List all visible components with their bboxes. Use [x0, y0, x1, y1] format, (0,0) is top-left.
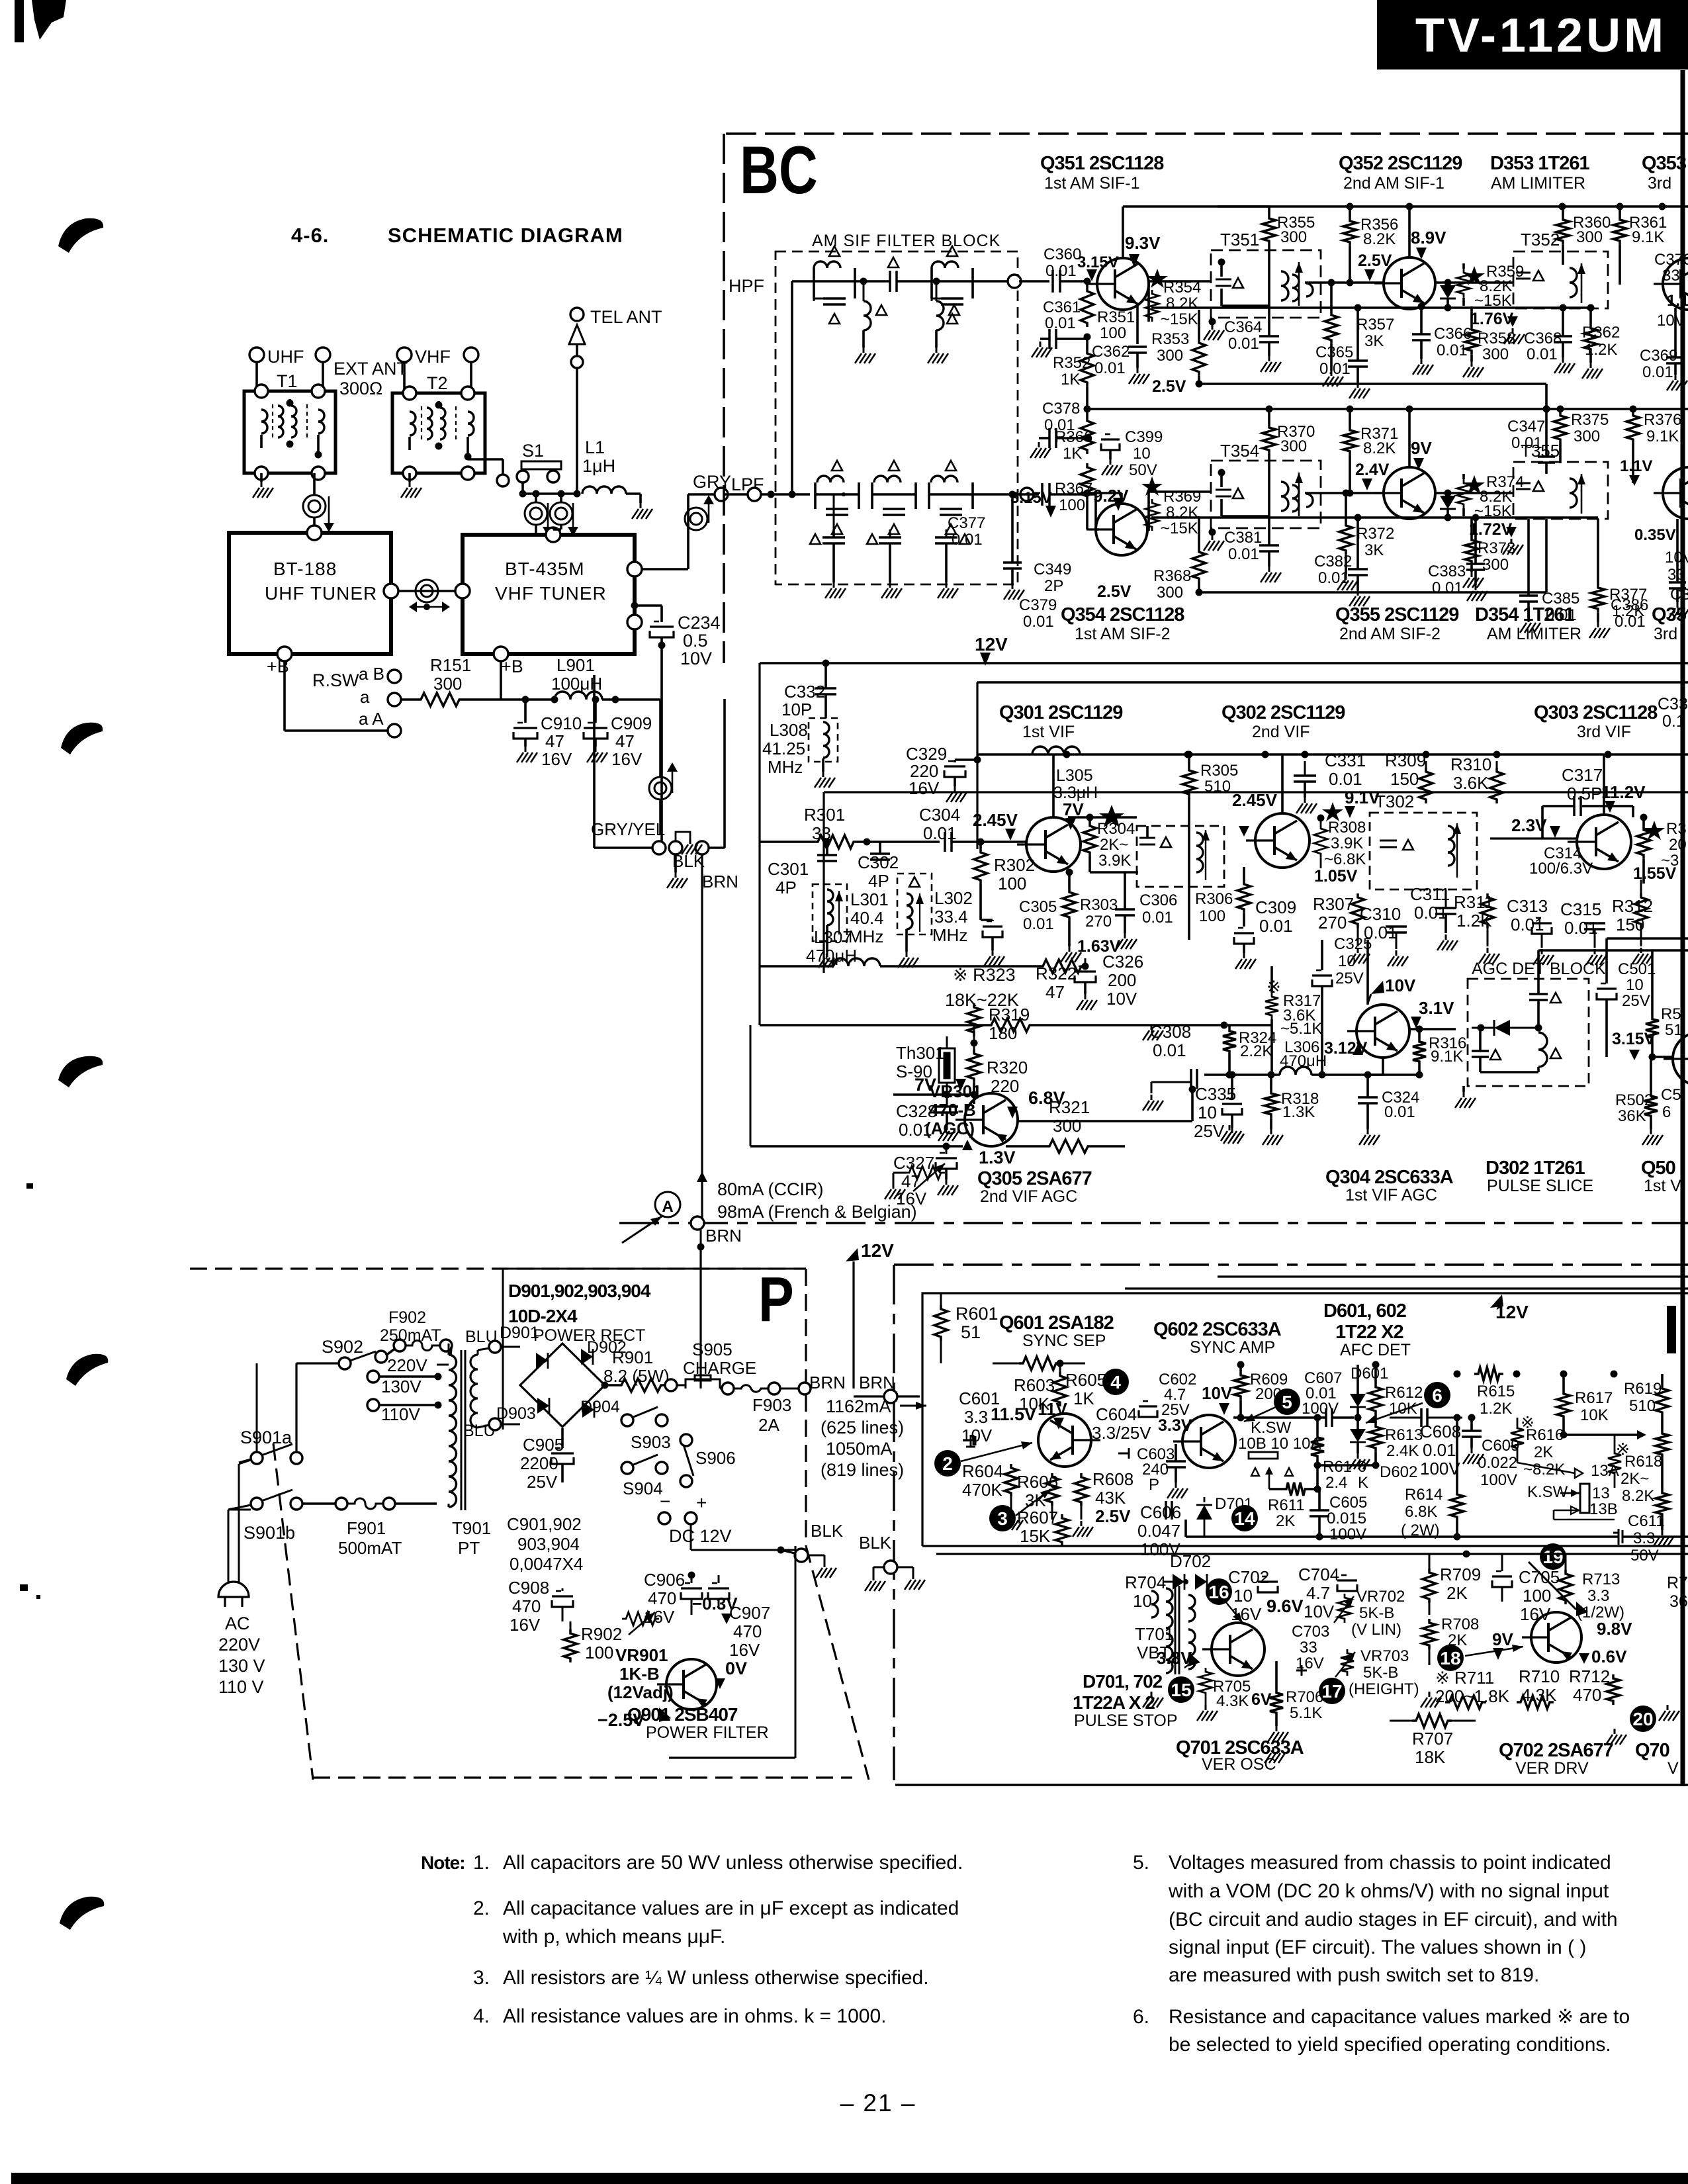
- wire T1 to feedthrough: [313, 473, 316, 494]
- HPF filter unit 2 (coil+cap): [932, 280, 973, 283]
- capacitor C910: [513, 727, 537, 729]
- coil T352: [1570, 268, 1577, 297]
- numbered point 5: [1274, 1388, 1300, 1415]
- svg-text:470K: 470K: [962, 1480, 1002, 1500]
- svg-text:C704: C704: [1298, 1565, 1339, 1584]
- transistor Q352: [1384, 257, 1435, 309]
- svg-text:SCHEMATIC DIAGRAM: SCHEMATIC DIAGRAM: [388, 224, 623, 247]
- svg-text:C361: C361: [1043, 298, 1081, 316]
- tap 130V: [367, 1371, 379, 1383]
- svg-text:R303: R303: [1080, 896, 1118, 914]
- svg-text:9.1K: 9.1K: [1632, 228, 1664, 246]
- transistor Q304 (1st VIF AGC): [1356, 1005, 1409, 1058]
- svg-text:2K: 2K: [1534, 1443, 1553, 1461]
- svg-text:R712: R712: [1569, 1666, 1610, 1686]
- svg-text:41.25: 41.25: [762, 739, 805, 758]
- svg-text:25V: 25V: [527, 1472, 558, 1492]
- svg-text:BLK: BLK: [811, 1521, 844, 1541]
- svg-text:0.01: 0.01: [1423, 1440, 1456, 1460]
- AGC det coil: [1538, 1032, 1547, 1067]
- svg-text:8.2K: 8.2K: [1166, 295, 1198, 312]
- svg-text:R305: R305: [1200, 762, 1238, 780]
- svg-text:C331: C331: [1325, 751, 1366, 770]
- svg-text:10P: 10P: [781, 700, 812, 719]
- wire to BC filter: [709, 846, 725, 849]
- wire LPF out: [973, 493, 1034, 496]
- dash-dot divider line upper: [619, 1222, 1688, 1224]
- svg-text:R352: R352: [1053, 354, 1090, 372]
- svg-text:C369: C369: [1640, 347, 1677, 365]
- sync lower bus: [1345, 1535, 1619, 1538]
- ground T351 cap: [1209, 318, 1216, 326]
- resistor R360: [1556, 216, 1570, 245]
- svg-text:0.01: 0.01: [1437, 341, 1468, 359]
- capacitor C399: [1101, 438, 1120, 440]
- svg-text:0.01: 0.01: [1414, 903, 1448, 923]
- svg-text:16V: 16V: [1231, 1604, 1262, 1624]
- diode D354 symbol: [1447, 493, 1449, 496]
- svg-text:Q353: Q353: [1642, 153, 1687, 174]
- svg-text:R321: R321: [1049, 1097, 1090, 1117]
- svg-text:D602: D602: [1380, 1463, 1417, 1481]
- dash-dot divider line lower: [894, 1263, 1688, 1265]
- svg-text:L1: L1: [585, 437, 605, 457]
- svg-text:C311: C311: [1410, 884, 1450, 904]
- svg-text:R5: R5: [1661, 1005, 1681, 1023]
- svg-text:C309: C309: [1255, 897, 1296, 917]
- svg-text:13: 13: [1592, 1484, 1610, 1502]
- numbered point 15: [1168, 1676, 1194, 1703]
- svg-text:C332: C332: [784, 682, 825, 702]
- svg-text:300: 300: [1574, 428, 1600, 445]
- svg-text:C908: C908: [508, 1578, 549, 1598]
- svg-text:0: 0: [1358, 1458, 1366, 1476]
- svg-text:10V: 10V: [961, 1426, 993, 1445]
- svg-text:0.01: 0.01: [1228, 545, 1259, 563]
- svg-text:0.01: 0.01: [1142, 909, 1173, 927]
- svg-text:R353: R353: [1151, 330, 1189, 348]
- svg-text:(819 lines): (819 lines): [821, 1460, 904, 1480]
- svg-text:C383: C383: [1428, 563, 1466, 580]
- svg-text:100V: 100V: [1420, 1459, 1460, 1479]
- transformer T901 primary: [449, 1355, 457, 1507]
- svg-text:C501: C501: [1618, 960, 1656, 978]
- svg-text:13A: 13A: [1591, 1462, 1619, 1480]
- svg-text:1.1V: 1.1V: [1620, 457, 1652, 475]
- svg-text:T351: T351: [1220, 230, 1259, 250]
- svg-text:C347: C347: [1507, 418, 1545, 435]
- svg-text:R618: R618: [1624, 1453, 1662, 1471]
- svg-text:R377: R377: [1609, 586, 1647, 604]
- svg-text:※ R323: ※ R323: [953, 965, 1016, 985]
- svg-text:10V: 10V: [1106, 989, 1137, 1009]
- svg-text:BRN: BRN: [705, 1226, 742, 1246]
- numbered point 19: [1540, 1543, 1566, 1570]
- svg-text:25V: 25V: [1335, 970, 1364, 987]
- svg-text:0.1: 0.1: [1662, 712, 1685, 731]
- voltage 2.45V Q302 star: [1322, 802, 1343, 821]
- svg-text:K.SW: K.SW: [1527, 1483, 1568, 1501]
- svg-text:0.01: 0.01: [1546, 606, 1577, 624]
- svg-text:0.01: 0.01: [1023, 613, 1054, 631]
- svg-text:T302: T302: [1375, 792, 1414, 811]
- svg-text:D353 1T261: D353 1T261: [1490, 153, 1589, 174]
- LPF filter unit 3: [929, 493, 973, 496]
- svg-text:D601: D601: [1351, 1365, 1388, 1383]
- svg-text:470: 470: [648, 1588, 676, 1608]
- svg-text:Q70: Q70: [1635, 1740, 1669, 1761]
- feedthrough capacitor VHF tuner input: [550, 502, 572, 525]
- svg-text:3: 3: [997, 1508, 1008, 1529]
- numbered point 16: [1206, 1578, 1232, 1605]
- svg-text:S901b: S901b: [244, 1523, 295, 1543]
- svg-text:8.2K: 8.2K: [1363, 439, 1396, 457]
- AM SIF filter block dashed box: [776, 251, 1018, 584]
- svg-text:Q601 2SA182: Q601 2SA182: [999, 1312, 1114, 1334]
- svg-text:3.6K: 3.6K: [1453, 773, 1489, 793]
- wire T1 right input: [322, 362, 324, 391]
- power rect solid box: [503, 1269, 806, 1430]
- svg-text:0.047: 0.047: [1137, 1521, 1180, 1541]
- svg-text:C335: C335: [1195, 1084, 1236, 1104]
- svg-text:L308: L308: [770, 720, 808, 740]
- wire VHF tuner right to C234: [635, 604, 662, 607]
- svg-text:110V: 110V: [381, 1404, 420, 1424]
- svg-text:R306: R306: [1195, 890, 1233, 908]
- svg-text:C377: C377: [948, 514, 985, 532]
- svg-text:0.01: 0.01: [1094, 359, 1126, 377]
- svg-text:2.3V: 2.3V: [1511, 815, 1547, 835]
- svg-text:S902: S902: [322, 1337, 363, 1357]
- svg-text:8.2K: 8.2K: [1166, 504, 1198, 522]
- svg-text:300Ω: 300Ω: [339, 379, 382, 398]
- svg-text:16V: 16V: [729, 1640, 760, 1660]
- svg-text:C304: C304: [919, 805, 960, 825]
- wire T2 output to S1: [468, 458, 503, 461]
- sync block outer box: [922, 1293, 1688, 1546]
- svg-text:C301: C301: [768, 859, 809, 879]
- svg-text:6: 6: [1662, 1103, 1671, 1121]
- svg-text:T354: T354: [1220, 441, 1259, 461]
- svg-text:T1: T1: [277, 371, 298, 391]
- svg-text:R607: R607: [1017, 1508, 1058, 1527]
- svg-text:10: 10: [1133, 1591, 1152, 1611]
- AC plug: [218, 1582, 249, 1597]
- svg-text:R605: R605: [1065, 1370, 1106, 1390]
- svg-text:0.01: 0.01: [952, 531, 983, 549]
- svg-text:A: A: [662, 1198, 673, 1216]
- svg-text:AM LIMITER: AM LIMITER: [1491, 174, 1585, 193]
- svg-text:10: 10: [1338, 952, 1356, 970]
- svg-text:3K: 3K: [1364, 332, 1384, 350]
- svg-text:2K~: 2K~: [1621, 1470, 1649, 1488]
- svg-text:R373: R373: [1478, 539, 1515, 557]
- svg-text:T2: T2: [427, 373, 448, 393]
- svg-text:0.01: 0.01: [1259, 916, 1293, 936]
- resistor R371: [1343, 426, 1356, 455]
- svg-text:R614: R614: [1405, 1486, 1443, 1504]
- svg-text:0.01: 0.01: [1319, 360, 1351, 378]
- svg-text:MHz: MHz: [848, 927, 883, 946]
- svg-text:110 V: 110 V: [218, 1677, 264, 1697]
- svg-text:C325: C325: [1334, 935, 1372, 953]
- svg-text:UHF: UHF: [267, 347, 304, 367]
- svg-text:R617: R617: [1575, 1389, 1613, 1407]
- svg-text:R351: R351: [1097, 308, 1135, 326]
- svg-text:250mAT: 250mAT: [380, 1326, 441, 1345]
- svg-text:S1: S1: [522, 441, 544, 461]
- svg-text:signal input (EF circuit). The: signal input (EF circuit). The values sh…: [1169, 1936, 1586, 1958]
- svg-text:33: 33: [1300, 1639, 1317, 1657]
- connector GRY/YEL: [652, 841, 666, 854]
- svg-text:0.35V: 0.35V: [1634, 526, 1676, 544]
- svg-text:VR901: VR901: [615, 1645, 668, 1665]
- svg-text:R708: R708: [1441, 1615, 1479, 1633]
- 12V bus line VIF: [977, 753, 1688, 756]
- svg-text:8.2K: 8.2K: [1622, 1487, 1654, 1505]
- svg-text:be selected to yield specified: be selected to yield specified operating…: [1169, 2034, 1611, 2056]
- BC block left dashed border: [723, 134, 725, 663]
- numbered point 20: [1630, 1706, 1656, 1732]
- svg-text:9.1K: 9.1K: [1646, 428, 1679, 445]
- svg-text:S905: S905: [692, 1340, 733, 1359]
- wire BRN bus to sync: [699, 1381, 701, 1388]
- svg-text:R319: R319: [989, 1005, 1030, 1024]
- numbered point 17: [1319, 1678, 1345, 1704]
- svg-text:VER OSC: VER OSC: [1202, 1755, 1276, 1774]
- svg-text:3.: 3.: [473, 1967, 490, 1989]
- transistor Q602: [1182, 1415, 1235, 1468]
- LPF filter unit 1: [815, 493, 859, 496]
- svg-text:2nd VIF: 2nd VIF: [1252, 723, 1310, 741]
- svg-text:AC: AC: [225, 1614, 250, 1633]
- coil T351: [1281, 271, 1288, 300]
- svg-text:BRN: BRN: [702, 872, 738, 891]
- svg-text:S906: S906: [695, 1448, 736, 1468]
- wire bus down to GRY/YEL: [593, 675, 596, 776]
- svg-text:1.55V: 1.55V: [1633, 864, 1677, 883]
- svg-text:6.8K: 6.8K: [1405, 1503, 1437, 1521]
- svg-text:R709: R709: [1440, 1565, 1481, 1584]
- svg-text:C381: C381: [1224, 529, 1262, 547]
- terminal VHF: [397, 347, 412, 362]
- svg-text:R612: R612: [1385, 1384, 1423, 1402]
- terminal BT-188 top: [307, 525, 322, 540]
- HPF filter unit 1 (coil+cap): [814, 280, 855, 283]
- svg-text:180: 180: [989, 1023, 1017, 1043]
- svg-text:VR703: VR703: [1360, 1647, 1409, 1665]
- svg-text:BLK: BLK: [672, 851, 705, 871]
- svg-text:1.2K: 1.2K: [1480, 1400, 1512, 1418]
- svg-text:R302: R302: [994, 855, 1035, 875]
- svg-text:9.3V: 9.3V: [1125, 233, 1161, 253]
- numbered point 14: [1231, 1505, 1258, 1531]
- svg-text:PT: PT: [458, 1538, 480, 1558]
- svg-text:R301: R301: [804, 805, 845, 825]
- svg-text:BT-188: BT-188: [273, 559, 337, 579]
- svg-text:are measured with push switch: are measured with push switch set to 819…: [1169, 1964, 1539, 1986]
- svg-text:C305: C305: [1019, 898, 1057, 916]
- svg-text:VR301: VR301: [929, 1081, 982, 1101]
- svg-text:C326: C326: [1102, 952, 1143, 972]
- UHF tuner block BT-188: [229, 533, 391, 654]
- svg-text:R368: R368: [1153, 567, 1191, 585]
- svg-text:AM LIMITER: AM LIMITER: [1487, 625, 1581, 643]
- node A circled: [655, 1192, 680, 1217]
- svg-text:S901a: S901a: [240, 1428, 292, 1447]
- trap box T301 dashed: [1137, 826, 1224, 887]
- svg-text:9V: 9V: [1411, 438, 1432, 458]
- svg-text:C611: C611: [1628, 1512, 1665, 1530]
- feedthrough capacitor GRY line: [685, 508, 707, 530]
- model number box: [1377, 0, 1688, 69]
- svg-text:2nd AM SIF-1: 2nd AM SIF-1: [1343, 174, 1444, 193]
- svg-text:12V: 12V: [861, 1240, 894, 1261]
- wire GRY/YEL left link: [593, 776, 596, 848]
- svg-text:MHz: MHz: [932, 925, 967, 945]
- svg-text:R357: R357: [1356, 316, 1394, 334]
- svg-text:D901,902,903,904: D901,902,903,904: [508, 1281, 651, 1301]
- svg-text:2.2K: 2.2K: [1240, 1042, 1272, 1060]
- wire R319 vertical: [973, 1025, 975, 1036]
- svg-text:16V: 16V: [909, 778, 940, 798]
- svg-text:C365: C365: [1315, 343, 1353, 361]
- svg-text:C234: C234: [678, 613, 721, 633]
- wire VIF left border down: [758, 663, 760, 1025]
- svg-text:R366: R366: [1055, 428, 1092, 446]
- transistor Q301: [1026, 817, 1081, 872]
- svg-text:18K: 18K: [1415, 1747, 1446, 1767]
- svg-text:L305: L305: [1056, 766, 1093, 785]
- svg-text:R902: R902: [581, 1624, 622, 1644]
- resistor R354 with star: [1147, 269, 1168, 288]
- svg-text:4P: 4P: [776, 878, 797, 897]
- AGC det block dashed box: [1468, 979, 1589, 1086]
- svg-text:3.9K: 3.9K: [1098, 852, 1131, 870]
- feedthrough capacitor TEL ANT line: [525, 502, 547, 525]
- svg-text:1T22A X 2: 1T22A X 2: [1073, 1692, 1155, 1713]
- svg-text:with a VOM (DC 20 k ohms/V) wi: with a VOM (DC 20 k ohms/V) with no sign…: [1168, 1880, 1609, 1902]
- wire HPF out: [973, 280, 1008, 283]
- wire DC12V to BLK: [690, 1524, 692, 1550]
- AGC det diode: [1494, 1020, 1510, 1036]
- svg-text:3K: 3K: [1364, 541, 1384, 559]
- svg-text:Q304 2SC633A: Q304 2SC633A: [1325, 1167, 1454, 1188]
- svg-text:D904: D904: [580, 1398, 620, 1416]
- HPF shunt coil 2: [936, 281, 938, 301]
- svg-text:300: 300: [1482, 345, 1509, 363]
- LPF shunt capacitor 2: [889, 529, 891, 537]
- wire transformer taps: [448, 1504, 450, 1507]
- svg-text:9V: 9V: [1492, 1629, 1513, 1649]
- svg-text:C907: C907: [729, 1603, 770, 1623]
- resistor R369 with star: [1141, 477, 1163, 496]
- svg-text:0.01: 0.01: [1432, 579, 1463, 597]
- svg-text:0.5: 0.5: [683, 631, 708, 651]
- ground T2: [408, 473, 411, 482]
- svg-text:0.01: 0.01: [1023, 915, 1054, 933]
- transformer T901 secondary: [470, 1355, 478, 1428]
- link UHF-VHF tuners: [384, 584, 398, 598]
- svg-text:16V: 16V: [611, 749, 643, 769]
- svg-text:a A: a A: [359, 709, 384, 729]
- wire AGC node line: [893, 1093, 974, 1096]
- svg-text:VR702: VR702: [1356, 1588, 1405, 1606]
- svg-text:6.: 6.: [1133, 2006, 1149, 2028]
- svg-text:TEL ANT: TEL ANT: [590, 307, 662, 327]
- svg-text:S904: S904: [623, 1479, 663, 1498]
- svg-text:300: 300: [1576, 228, 1603, 246]
- svg-text:270: 270: [1318, 913, 1347, 933]
- svg-text:2: 2: [942, 1453, 953, 1474]
- wire sync coupling: [1325, 1408, 1327, 1427]
- svg-text:VER DRV: VER DRV: [1515, 1759, 1589, 1778]
- svg-text:C306: C306: [1139, 891, 1177, 909]
- svg-text:3rd VIF: 3rd VIF: [1577, 723, 1631, 741]
- svg-text:9.1K: 9.1K: [1431, 1048, 1463, 1066]
- svg-text:All resistors are ¼ W unless o: All resistors are ¼ W unless otherwise s…: [503, 1967, 929, 1989]
- svg-text:3rd: 3rd: [1654, 625, 1677, 643]
- svg-text:R604: R604: [962, 1461, 1003, 1481]
- svg-text:C382: C382: [1314, 553, 1352, 570]
- svg-text:13B: 13B: [1589, 1500, 1618, 1518]
- svg-text:470: 470: [1573, 1685, 1601, 1705]
- star mark Q301: [1099, 805, 1124, 827]
- vertical section top rail: [936, 1553, 1688, 1555]
- svg-text:10: 10: [1133, 445, 1151, 463]
- svg-text:GRY/YEL: GRY/YEL: [591, 819, 665, 839]
- svg-text:11.2V: 11.2V: [1601, 782, 1646, 802]
- svg-text:10: 10: [1626, 976, 1644, 994]
- svg-text:11.5V: 11.5V: [991, 1404, 1036, 1424]
- svg-text:R358: R358: [1478, 330, 1515, 347]
- svg-text:4-6.: 4-6.: [291, 224, 329, 247]
- svg-text:10V: 10V: [680, 649, 712, 668]
- transistor Q901 (power filter): [666, 1659, 717, 1709]
- svg-text:51: 51: [1665, 1021, 1683, 1039]
- wire S901a to S902: [256, 1363, 258, 1452]
- svg-text:100: 100: [1059, 496, 1085, 514]
- svg-text:100/6.3V: 100/6.3V: [1529, 860, 1593, 878]
- svg-text:51: 51: [961, 1322, 981, 1342]
- svg-text:1T22 X2: 1T22 X2: [1335, 1322, 1403, 1343]
- svg-text:17: 17: [1321, 1681, 1342, 1702]
- svg-text:BRN: BRN: [809, 1373, 846, 1392]
- svg-text:+B: +B: [501, 657, 523, 676]
- svg-text:8.9V: 8.9V: [1411, 228, 1446, 248]
- svg-text:P: P: [1149, 1476, 1159, 1494]
- svg-text:R304: R304: [1097, 820, 1135, 838]
- scan crescent blob 4: [66, 1354, 108, 1386]
- svg-text:K: K: [1358, 1474, 1368, 1492]
- svg-text:300: 300: [1157, 584, 1183, 602]
- VIF top border line: [977, 681, 1688, 683]
- svg-text:Note:: Note:: [421, 1852, 465, 1873]
- svg-text:R710: R710: [1519, 1666, 1560, 1686]
- resistor R610: [1311, 1433, 1324, 1460]
- svg-text:Th301: Th301: [896, 1043, 945, 1063]
- svg-text:5.: 5.: [1133, 1852, 1149, 1874]
- resistor R367: [1081, 463, 1094, 500]
- capacitor C377: [1019, 493, 1039, 496]
- svg-text:0.5P: 0.5P: [1567, 784, 1603, 803]
- svg-text:BLK: BLK: [859, 1533, 892, 1553]
- svg-text:C909: C909: [611, 713, 652, 733]
- svg-text:Q901 2SB407: Q901 2SB407: [627, 1704, 738, 1725]
- wire T354 links: [1149, 490, 1211, 493]
- svg-text:~5.1K: ~5.1K: [1280, 1020, 1322, 1038]
- resistor R355: [1263, 214, 1276, 245]
